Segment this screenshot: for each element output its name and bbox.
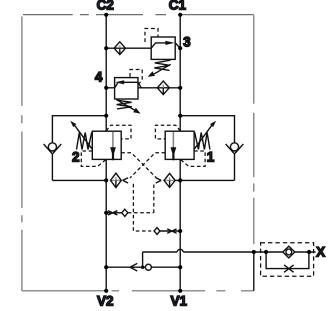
vent arrow (open) [130,263,137,271]
counterbalance valve 1: adjustment arrow [195,121,217,149]
small check diamond [122,209,128,216]
relief valve 4: adjustment arrow [118,100,141,113]
small check diamond [154,228,160,235]
svg-text:V1: V1 [171,294,188,309]
pilot arrow at left service line [123,178,129,183]
node C2 [104,13,108,17]
X port check valve (ball in diamond) [283,246,295,258]
svg-text:3: 3 [183,34,191,49]
counterbalance valve 1: crossover pilot line (dashed diagonal to left service) [130,153,165,178]
pilot riser (dashed) right [153,185,155,213]
wire: left main line C2 to V2 (interrupted by valve 2 body) [105,15,107,291]
orifice (crossed lines) [167,229,176,233]
wire: valve 4 outlet line to left main line [106,87,114,89]
wire: left bypass lower branch [52,154,106,180]
svg-text:V2: V2 [97,294,114,309]
counterbalance valve 1: spring drain pilot (dashed) [181,151,206,166]
dashed link to right riser [128,212,154,214]
wire: right main line C1 to V1 (interrupted by valve 1 body) [179,15,181,291]
drain segment of boundary (solid) below X junction [253,252,255,291]
node: X sub-block right [307,250,311,254]
counterbalance valve 2: adjustment arrow [70,121,92,149]
counterbalance valve 2: spring [77,132,92,149]
relief valve 3: spring [154,60,170,70]
node V1 [178,289,182,293]
wire: valve 4 inlet line from right main line [138,87,180,89]
branch up to X pilot line [142,252,144,267]
counterbalance valve 1: internal poppet line [172,132,174,148]
check valve under valve 2 (diamond on left service line) [111,173,122,187]
pilot gallery: orifice row 2 to right main line [154,228,180,235]
node: drain row tee [178,265,182,269]
node C1 [178,13,182,17]
enclosure: bottom edge [22,290,254,292]
node: valve4 inlet tee [178,86,182,90]
orifice circle [145,264,151,270]
X port sub-block: dashed enclosure [261,243,314,276]
relief valve 3: pilot line (dashed staple above body) [145,29,158,43]
svg-text:C1: C1 [169,0,187,13]
pilot riser (dashed) left [133,184,151,231]
drain line with vent arrow and orifice [106,252,180,271]
counterbalance valve 2: body [92,131,121,159]
enclosure: valve block boundary (dashed border), top edge [23,14,254,16]
relief valve 3: adjustment arrow [148,64,171,77]
counterbalance valve 2: internal poppet line [112,132,114,148]
pilot arrow at right service line [156,178,162,183]
wire: valve 3 inlet line from left main line [106,47,151,49]
X port bypass with orifice [266,252,309,272]
node: left bypass top tee [104,114,108,118]
wire: valve 3 outlet diagonal to right main line [175,43,180,48]
counterbalance valve 1: top pilot (dashed) from inlet [155,125,180,139]
svg-text:C2: C2 [97,0,114,13]
enclosure: right edge [253,15,255,244]
relief valve 4: internal flow path with arrow [115,80,138,88]
orifice (crossed lines) [108,211,118,215]
relief valve 4: spring [116,100,131,109]
node: X line at boundary [252,250,256,254]
X pilot line (hops over right main line) [143,249,316,252]
svg-text:X: X [316,244,325,259]
svg-text:2: 2 [72,150,80,165]
svg-text:1: 1 [207,150,215,165]
counterbalance valve 1: spring [195,132,210,149]
relief valve 3: body [151,37,175,59]
check valve on valve 3 inlet line (diamond) [114,42,125,55]
node: valve4 outlet tee [104,86,108,90]
wire: valve 4 exit diagonal [138,82,141,88]
node: X sub-block left [264,250,268,254]
check valve on valve 4 line (diamond) [157,81,169,95]
relief valve 3: internal flow path with arrow [151,41,174,48]
wire: left bypass upper branch [52,116,106,143]
wire: right bypass upper branch [180,116,234,143]
node: drain branch tee [141,266,144,269]
node: right bypass top tee [178,114,182,118]
ball check valve on left bypass [44,143,62,154]
node: left bypass bottom tee [104,178,108,182]
counterbalance valve 2: spring drain pilot (dashed) [81,151,106,166]
node V2 [104,289,108,293]
wire: right bypass lower branch [180,154,234,180]
svg-text:4: 4 [95,70,103,85]
node: valve3 inlet tee [104,46,108,50]
counterbalance valve 1: poppet (nail shape) [171,147,177,160]
counterbalance valve 1: body [165,131,194,159]
check valve under valve 1 (diamond on right service line) [164,173,180,187]
relief valve 4: body [115,78,138,99]
node: valve3 outlet tee [178,46,182,50]
counterbalance valve 2: crossover pilot line (dashed diagonal to right service) [121,153,156,178]
enclosure: left edge [21,17,23,291]
relief valve 4: pilot line (dashed staple above body) [130,70,142,85]
node: right bypass bottom tee [178,178,182,182]
counterbalance valve 2: poppet (nail shape) [110,147,116,160]
node: orifice row 1 tee [104,211,108,215]
ball check valve on right bypass [226,143,244,154]
node: drain row left tee [104,265,108,269]
pilot gallery: orifice row 1 from left main line [106,209,154,216]
counterbalance valve 2: top pilot (dashed) from inlet [106,125,131,139]
node: orifice row 2 tee [178,229,182,233]
